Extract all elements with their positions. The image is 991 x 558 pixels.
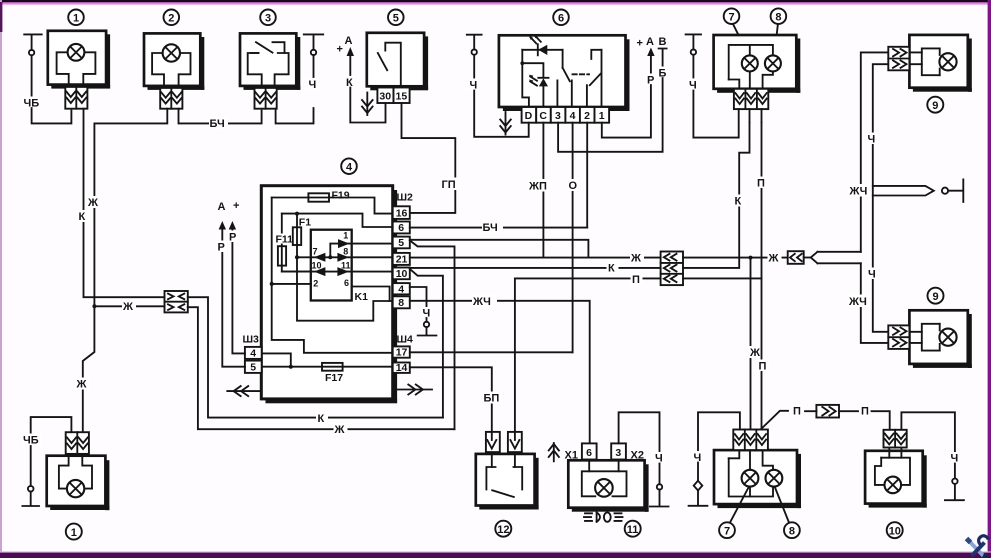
svg-text:К: К — [608, 263, 615, 275]
pin 1 of unit 6 — [595, 107, 610, 123]
frame top black bar — [0, 0, 991, 2]
wire Ж from lamp 2 left pin — [94, 109, 167, 307]
wire П row (unit 12 to connector) — [515, 277, 661, 279]
wire П rear diagonal to connector — [762, 411, 789, 429]
node circled 1 bottom — [66, 524, 82, 540]
leader lines to front lamps — [733, 24, 749, 55]
svg-text:14: 14 — [396, 362, 408, 374]
wire Ж row (Ш2-21 to connector) — [410, 257, 661, 259]
inline connector (К/Ж pair, left) — [165, 291, 188, 312]
terminal T2 (top right of switch 3) — [304, 34, 323, 77]
svg-text:16: 16 — [396, 207, 408, 219]
svg-text:П: П — [632, 274, 640, 286]
wire П vertical (front to rear) — [761, 123, 763, 434]
relay contact row 1 — [328, 230, 392, 259]
wire Ш2-5 branch to Ж line — [410, 241, 455, 430]
wire П drop to unit 12 — [514, 278, 516, 432]
continuation chevron right (below unit 4) — [397, 385, 432, 395]
svg-text:1: 1 — [71, 527, 77, 539]
svg-text:8: 8 — [789, 525, 795, 537]
tools icon (bottom right) — [967, 536, 989, 558]
node circled 8 rear — [784, 522, 800, 538]
connector X of repeater 9 bottom — [888, 325, 909, 349]
svg-text:А: А — [345, 35, 353, 47]
svg-text:3: 3 — [265, 13, 271, 25]
wire Ч (Ш2-4 to ground terminal) — [410, 287, 437, 336]
svg-text:2: 2 — [313, 279, 318, 289]
wire Ж down to rear lamp 1 — [83, 306, 95, 432]
terminal T1 (body point, top-left) — [24, 34, 42, 96]
fog lamp unit 11 — [568, 460, 648, 512]
ground G1 (rear lamps Ч) — [689, 412, 740, 506]
fuse F11 — [276, 214, 311, 272]
node circled 5 — [388, 9, 404, 25]
svg-text:Ж: Ж — [122, 301, 133, 313]
svg-text:1: 1 — [73, 13, 79, 25]
svg-text:+: + — [233, 200, 239, 212]
П connector (to licence lamp) — [805, 405, 858, 418]
pin Ш3-5 — [245, 361, 262, 374]
wire О (unit 6 pin 4) — [572, 123, 574, 353]
frame right purple edge — [988, 0, 991, 558]
wire К (connector to bottom row) — [188, 297, 443, 417]
node circled 2 — [164, 9, 180, 25]
wire ЧБ to ground (bottom left) — [22, 417, 71, 506]
middle 3-row connector Ж/К/П — [661, 252, 683, 286]
svg-text:К: К — [79, 211, 86, 223]
pin C of unit 6 — [536, 107, 551, 123]
ground G3 — [945, 452, 964, 500]
svg-text:П: П — [793, 406, 801, 418]
wire БЧ vertical (unit 6 pin 2) — [586, 123, 588, 228]
svg-text:4: 4 — [250, 348, 256, 360]
svg-text:Ч: Ч — [309, 79, 317, 91]
LED1 in unit 6 — [522, 34, 562, 55]
svg-text:C: C — [539, 110, 547, 122]
svg-text:Ж: Ж — [76, 379, 87, 391]
svg-text:F1: F1 — [299, 217, 311, 229]
svg-text:А: А — [646, 36, 654, 48]
node circled 9 top — [927, 97, 943, 113]
Ш3-4 jog to F17 row — [262, 353, 291, 366]
frame left lavender edge — [0, 0, 2, 558]
connector X of switch 3 — [255, 88, 277, 109]
connector X of unit 7/8 front — [734, 89, 768, 109]
svg-text:30: 30 — [379, 90, 391, 102]
svg-text:А: А — [218, 201, 226, 213]
fuse F17 — [262, 363, 393, 384]
lamp unit 1 (top-left turn indicator) — [48, 31, 110, 89]
node circled 12 — [495, 521, 511, 537]
wire Ш4-17 row to О — [410, 351, 573, 353]
wire П (connector to П line) — [683, 277, 762, 279]
connector X of unit 7/8 rear — [733, 430, 768, 451]
wire Ч (unit 6 pin D to T3) — [468, 79, 479, 92]
svg-text:8: 8 — [398, 297, 404, 309]
svg-text:4: 4 — [346, 161, 353, 173]
svg-text:7: 7 — [724, 525, 730, 537]
pin Ш2-5 — [393, 237, 410, 250]
svg-text:ЖЧ: ЖЧ — [848, 296, 867, 308]
svg-text:10: 10 — [889, 525, 901, 537]
wire БЧ lamp2 to lamp3 — [179, 109, 262, 124]
wire Ш4-14 row to БП — [410, 367, 492, 432]
svg-text:1: 1 — [599, 110, 605, 122]
pin Ш3-4 — [245, 347, 262, 360]
node Ж branch to rear — [749, 256, 753, 260]
node circled 7 rear — [719, 522, 735, 538]
wire Б (unit 6 pin 3) — [657, 67, 668, 80]
pin 6 of X1 — [582, 443, 597, 459]
svg-text:2: 2 — [584, 110, 590, 122]
svg-text:Ж: Ж — [749, 347, 760, 359]
wire Р (А to Ш3-5) — [222, 230, 245, 367]
net feed left drop to Ш4-17 — [272, 198, 393, 353]
wire К stub front — [749, 109, 751, 122]
svg-text:5: 5 — [393, 13, 399, 25]
wire Ч unit 11 to ground G2 — [619, 412, 660, 451]
pin Ш2-4 — [393, 283, 410, 295]
frame bottom purple bar — [0, 551, 991, 552]
svg-text:7: 7 — [729, 11, 735, 23]
svg-text:K1: K1 — [355, 291, 369, 303]
svg-text:6: 6 — [558, 13, 564, 25]
relay pin6 wire to pin 8 — [352, 287, 390, 302]
wire ЖП (unit 6 pin C) — [542, 123, 544, 258]
wire Р (+ to Ш3-4) — [232, 230, 245, 354]
svg-text:8: 8 — [775, 11, 781, 23]
svg-text:В: В — [659, 36, 667, 48]
wire Ж (connector to fork) — [683, 257, 788, 259]
hazard switch unit 6 — [499, 35, 630, 111]
node circled 11 — [625, 521, 641, 537]
wire to ground G3 (licence lamp) — [901, 412, 955, 451]
svg-text:Ш3: Ш3 — [243, 334, 260, 346]
svg-text:5: 5 — [250, 362, 256, 374]
svg-text:ЖП: ЖП — [528, 181, 547, 193]
wire Ч (repeater 9 top to bullet, to 9 bottom) — [873, 64, 889, 332]
pin Ш2-6 — [393, 222, 410, 235]
mounting block unit 4 — [261, 186, 397, 404]
mate chevron X1 — [549, 443, 559, 461]
svg-text:10: 10 — [312, 261, 322, 271]
wire Ч front lamps — [688, 79, 700, 92]
repeater unit 9 bottom — [909, 310, 971, 368]
under-relay route to pin 8 — [297, 257, 393, 320]
pin 3 of unit 6 — [551, 107, 566, 123]
svg-text:ГП: ГП — [442, 179, 456, 191]
switch contact 2 in unit 6 — [587, 50, 602, 107]
node circled 3 — [260, 9, 276, 25]
fork connector on Ж wire — [788, 251, 861, 264]
svg-text:X2: X2 — [631, 450, 644, 462]
svg-text:15: 15 — [396, 90, 408, 102]
svg-text:Ж: Ж — [768, 253, 779, 265]
svg-text:11: 11 — [341, 261, 351, 271]
pin Ш2-10 — [393, 268, 410, 281]
svg-text:БЧ: БЧ — [483, 222, 498, 234]
svg-text:Р: Р — [218, 242, 225, 254]
wire ЖЧ down to repeater 9 bottom — [861, 263, 889, 343]
supply arrows А + (left of unit 4) — [218, 200, 240, 230]
svg-text:Р: Р — [229, 232, 236, 244]
svg-text:7: 7 — [313, 246, 318, 256]
pin 4 of unit 6 — [565, 107, 580, 123]
wire ЖЧ up to repeater 9 top — [861, 52, 889, 251]
wire ГП (unit 5 pin 15 to Ш2-16) — [402, 103, 456, 213]
svg-text:F19: F19 — [332, 189, 350, 201]
wire Ш2-5 row with jog — [410, 240, 589, 258]
svg-text:6: 6 — [344, 278, 349, 288]
rear indicator lamp unit 1 bottom — [47, 454, 110, 510]
pin Ш2-8 — [393, 296, 410, 309]
node circled 7 — [724, 8, 740, 24]
licence lamp unit 10 — [865, 448, 927, 508]
svg-text:П: П — [861, 406, 869, 418]
wire Р (unit 6 pin 1) — [646, 74, 657, 87]
feed row (inner) — [282, 214, 393, 227]
node circled 4 — [341, 158, 357, 174]
relay K1 box — [311, 230, 368, 303]
pin 3 of X2 — [611, 443, 626, 459]
connector pins of unit 12 — [486, 432, 522, 452]
svg-text:3: 3 — [555, 110, 561, 122]
svg-text:8: 8 — [343, 246, 348, 256]
pin Ш4-17 — [393, 346, 410, 358]
pin 2 of unit 6 — [580, 107, 595, 123]
relay contact row 7-8 — [295, 246, 393, 261]
switch unit 12 — [476, 454, 539, 510]
svg-text:F17: F17 — [325, 372, 343, 384]
svg-text:3: 3 — [615, 447, 621, 459]
svg-text:ЖЧ: ЖЧ — [849, 186, 868, 198]
svg-text:О: О — [569, 180, 578, 192]
wire К (unit 5 pin 30) — [345, 76, 356, 89]
svg-text:9: 9 — [932, 100, 938, 112]
fuse F19 — [272, 189, 393, 213]
svg-text:П: П — [757, 178, 765, 190]
wire К from lamp 1 down — [84, 109, 165, 298]
switch contact 1 in unit 6 — [557, 50, 571, 107]
front turn lamps unit 7/8 — [714, 35, 801, 93]
svg-text:5: 5 — [398, 237, 404, 249]
wire К (connector to front lamps) — [683, 123, 750, 268]
svg-text:9: 9 — [933, 291, 939, 303]
svg-text:21: 21 — [396, 254, 408, 266]
svg-text:ЖЧ: ЖЧ — [472, 296, 491, 308]
fuse F1 — [293, 212, 311, 258]
pin D of unit 6 — [522, 107, 537, 123]
svg-text:1: 1 — [343, 230, 348, 240]
svg-text:П: П — [759, 361, 767, 373]
terminal T3 (unit 6 ground) — [467, 35, 482, 78]
svg-text:+: + — [637, 38, 643, 50]
wire П stub front — [761, 109, 763, 122]
wire ЧБ label — [23, 97, 40, 110]
continuation chevron left (below unit 4) — [227, 386, 261, 396]
wire Ш2-10 branch to К line down — [410, 269, 443, 418]
connector X of lamp 2 — [160, 88, 182, 109]
switch linkage (dashed) — [573, 73, 590, 75]
connector X of unit 1 bottom — [66, 432, 89, 454]
node circled 10 — [887, 522, 903, 538]
connector X of repeater 9 top — [888, 47, 909, 71]
node relay pin2 junction — [270, 282, 274, 286]
node circled 1 — [68, 9, 84, 25]
svg-text:Ч: Ч — [868, 269, 876, 281]
svg-text:10: 10 — [396, 268, 408, 280]
supply arrow +A (unit 5) — [337, 35, 355, 75]
svg-text:F11: F11 — [276, 233, 294, 245]
connector X of unit 10 — [884, 430, 907, 448]
svg-text:Ч: Ч — [868, 134, 876, 146]
svg-text:4: 4 — [398, 283, 404, 295]
svg-text:D: D — [525, 110, 533, 122]
svg-text:К: К — [318, 413, 325, 425]
pin Ш4-14 — [393, 362, 410, 374]
leader lines rear lamps — [730, 488, 749, 523]
lamp unit 2 — [144, 33, 204, 90]
rear lamps unit 7/8 — [714, 450, 801, 508]
bullet ground connector (right) — [873, 179, 964, 202]
LED2 in unit 6 — [520, 50, 548, 107]
switch unit 3 — [240, 33, 300, 90]
wire Ч from switch 3 to terminal T2 — [276, 108, 314, 123]
wire ЖЧ row (Ш2-8 to X1-6) — [410, 301, 590, 445]
wire Ж (connector to bottom row) — [92, 304, 96, 308]
node circled 9 bottom — [928, 288, 944, 304]
svg-text:Ш4: Ш4 — [397, 334, 414, 346]
svg-text:БП: БП — [484, 393, 500, 405]
wire БЧ row (Ш2-6 to unit 6 pin 2) — [410, 227, 587, 229]
pin Ш2-21 — [393, 253, 410, 266]
pin 30 of unit 5 — [377, 88, 393, 104]
harness chevron on wire 30 — [362, 93, 373, 116]
pin 15 of unit 5 — [394, 88, 410, 104]
svg-text:17: 17 — [396, 347, 408, 359]
wire ЧБ to lamp 1 — [32, 108, 72, 123]
svg-text:11: 11 — [627, 524, 639, 536]
svg-text:6: 6 — [398, 222, 404, 234]
pin Ш2-16 — [393, 206, 410, 219]
svg-text:К: К — [735, 196, 742, 208]
svg-text:Ж: Ж — [630, 253, 641, 265]
connector X of lamp 1 — [65, 87, 87, 109]
svg-text:Ж: Ж — [87, 197, 98, 209]
svg-text:ЧБ: ЧБ — [23, 435, 39, 447]
harness chevron on wire D — [500, 112, 511, 135]
svg-text:Ж: Ж — [334, 424, 345, 436]
supply arrows +АВ (unit 6) — [637, 36, 667, 73]
svg-text:4: 4 — [570, 110, 576, 122]
svg-text:БЧ: БЧ — [210, 118, 225, 130]
relay/switch unit 5 — [367, 33, 428, 91]
terminal T4 (front lamps ground) — [686, 34, 701, 77]
relay contact row 10-11 — [282, 261, 393, 277]
fog pictogram under unit 11 — [584, 512, 623, 521]
repeater unit 9 top — [909, 35, 971, 92]
svg-text:X1: X1 — [565, 450, 578, 462]
node circled 8 — [771, 8, 787, 24]
wire К row (Ш2-10 to connector) — [410, 267, 661, 269]
svg-text:+: + — [337, 44, 343, 56]
svg-text:12: 12 — [497, 524, 509, 536]
svg-text:Ш2: Ш2 — [397, 192, 414, 204]
svg-text:2: 2 — [168, 13, 174, 25]
svg-text:6: 6 — [586, 447, 592, 459]
node circled 6 — [553, 9, 569, 25]
